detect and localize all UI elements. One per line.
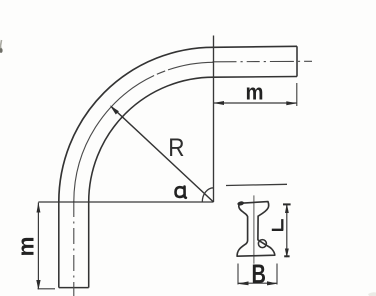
radius line R bbox=[111, 107, 213, 202]
dimension line L (rail height) bbox=[286, 204, 288, 257]
svg-text:m: m bbox=[14, 236, 39, 256]
arrow left of B dimension bbox=[237, 281, 248, 285]
svg-text:B: B bbox=[251, 259, 265, 290]
edge mark top-left bbox=[1, 40, 2, 52]
outer arc of bend bbox=[59, 47, 214, 202]
rail section centerline bbox=[253, 195, 255, 263]
arrow bottom of L dimension bbox=[285, 249, 289, 258]
horizontal pipe right end bbox=[296, 46, 298, 76]
horizontal pipe centerline bbox=[213, 60, 313, 63]
svg-text:R: R bbox=[168, 134, 184, 162]
vertical pipe left edge bbox=[58, 202, 60, 288]
tick at bottom of L dimension bbox=[284, 255, 289, 257]
horizontal pipe bottom edge bbox=[214, 76, 298, 79]
arrow bottom of left m dimension bbox=[36, 280, 40, 290]
angle arc bbox=[202, 188, 213, 202]
dimension line m (left, vertical leg) bbox=[37, 203, 39, 290]
radius arrowhead bbox=[110, 105, 119, 114]
horizontal baseline of angle bbox=[38, 201, 213, 203]
rail profile bbox=[237, 202, 275, 257]
vertical pipe bottom end bbox=[59, 287, 89, 289]
rail head pen blob bbox=[237, 201, 245, 207]
rail section top reference line bbox=[226, 184, 287, 185]
inner arc of bend bbox=[89, 77, 214, 202]
extension line left for B bbox=[237, 264, 239, 285]
tick at top of L dimension bbox=[283, 203, 291, 205]
extension line bottom for left m bbox=[38, 288, 56, 290]
vertical reference line through tangent point bbox=[213, 36, 215, 203]
corner smudge bottom-right bbox=[368, 292, 376, 296]
arrow right of B dimension bbox=[267, 281, 278, 285]
dimension line m (top, horizontal leg) bbox=[214, 102, 297, 104]
svg-text:m: m bbox=[245, 80, 263, 105]
extension line right for B bbox=[276, 264, 278, 285]
dimension line B (rail foot width) bbox=[238, 282, 277, 284]
vertical pipe centerline bbox=[73, 201, 75, 296]
extension line right for top m bbox=[296, 83, 298, 106]
rail web fillet loop bbox=[258, 240, 266, 248]
arrow right of top m dimension bbox=[286, 101, 297, 105]
vertical pipe right edge bbox=[88, 202, 90, 288]
label L (rotated) bbox=[272, 219, 283, 231]
arrow top of L dimension bbox=[285, 203, 289, 213]
arrow left of top m dimension bbox=[213, 101, 224, 105]
horizontal pipe top edge bbox=[214, 46, 298, 47]
arrow top of left m dimension bbox=[37, 202, 41, 212]
label alpha bbox=[175, 187, 185, 198]
centerline arc of bend bbox=[74, 62, 214, 202]
